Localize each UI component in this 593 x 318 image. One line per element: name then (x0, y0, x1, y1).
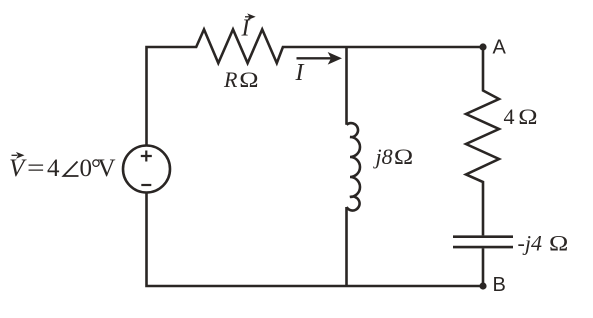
svg-text:4: 4 (47, 155, 60, 182)
svg-text:4: 4 (504, 104, 515, 129)
svg-text:A: A (493, 37, 507, 59)
svg-text:I: I (241, 16, 251, 42)
svg-text:V: V (9, 155, 27, 182)
svg-text:B: B (493, 274, 506, 296)
svg-text:R: R (223, 67, 238, 92)
svg-text:Ω: Ω (549, 232, 568, 256)
svg-text:Ω: Ω (239, 69, 258, 93)
svg-text:-j4: -j4 (518, 231, 542, 256)
svg-text:=: = (27, 155, 45, 182)
svg-text:Ω: Ω (518, 106, 537, 130)
svg-text:j8: j8 (373, 144, 393, 169)
svg-text:V: V (98, 155, 116, 182)
svg-text:Ω: Ω (394, 146, 413, 170)
svg-text:I: I (295, 60, 305, 86)
